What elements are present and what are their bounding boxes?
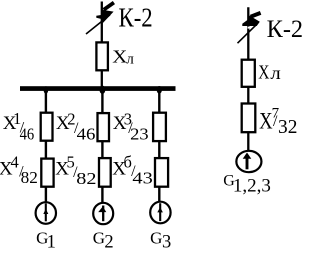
svg-text:G: G — [93, 229, 105, 248]
svg-text:46: 46 — [20, 124, 35, 143]
svg-text:82: 82 — [21, 168, 38, 187]
svg-text:82: 82 — [76, 169, 96, 188]
svg-text:1: 1 — [47, 233, 56, 253]
svg-text:К-2: К-2 — [267, 16, 304, 43]
svg-text:3: 3 — [162, 233, 171, 253]
svg-text:G: G — [150, 229, 162, 248]
svg-text:Х: Х — [112, 47, 127, 67]
svg-text:2: 2 — [104, 233, 113, 253]
svg-text:43: 43 — [132, 168, 152, 187]
svg-text:л: л — [126, 51, 134, 67]
svg-text:Х: Х — [258, 62, 270, 84]
svg-text:4: 4 — [11, 153, 19, 172]
svg-text:32: 32 — [278, 117, 297, 138]
svg-text:л: л — [270, 63, 280, 83]
svg-text:1,2,3: 1,2,3 — [233, 175, 271, 196]
svg-text:23: 23 — [130, 124, 149, 143]
svg-text:К-2: К-2 — [119, 2, 153, 33]
svg-text:46: 46 — [77, 124, 96, 143]
